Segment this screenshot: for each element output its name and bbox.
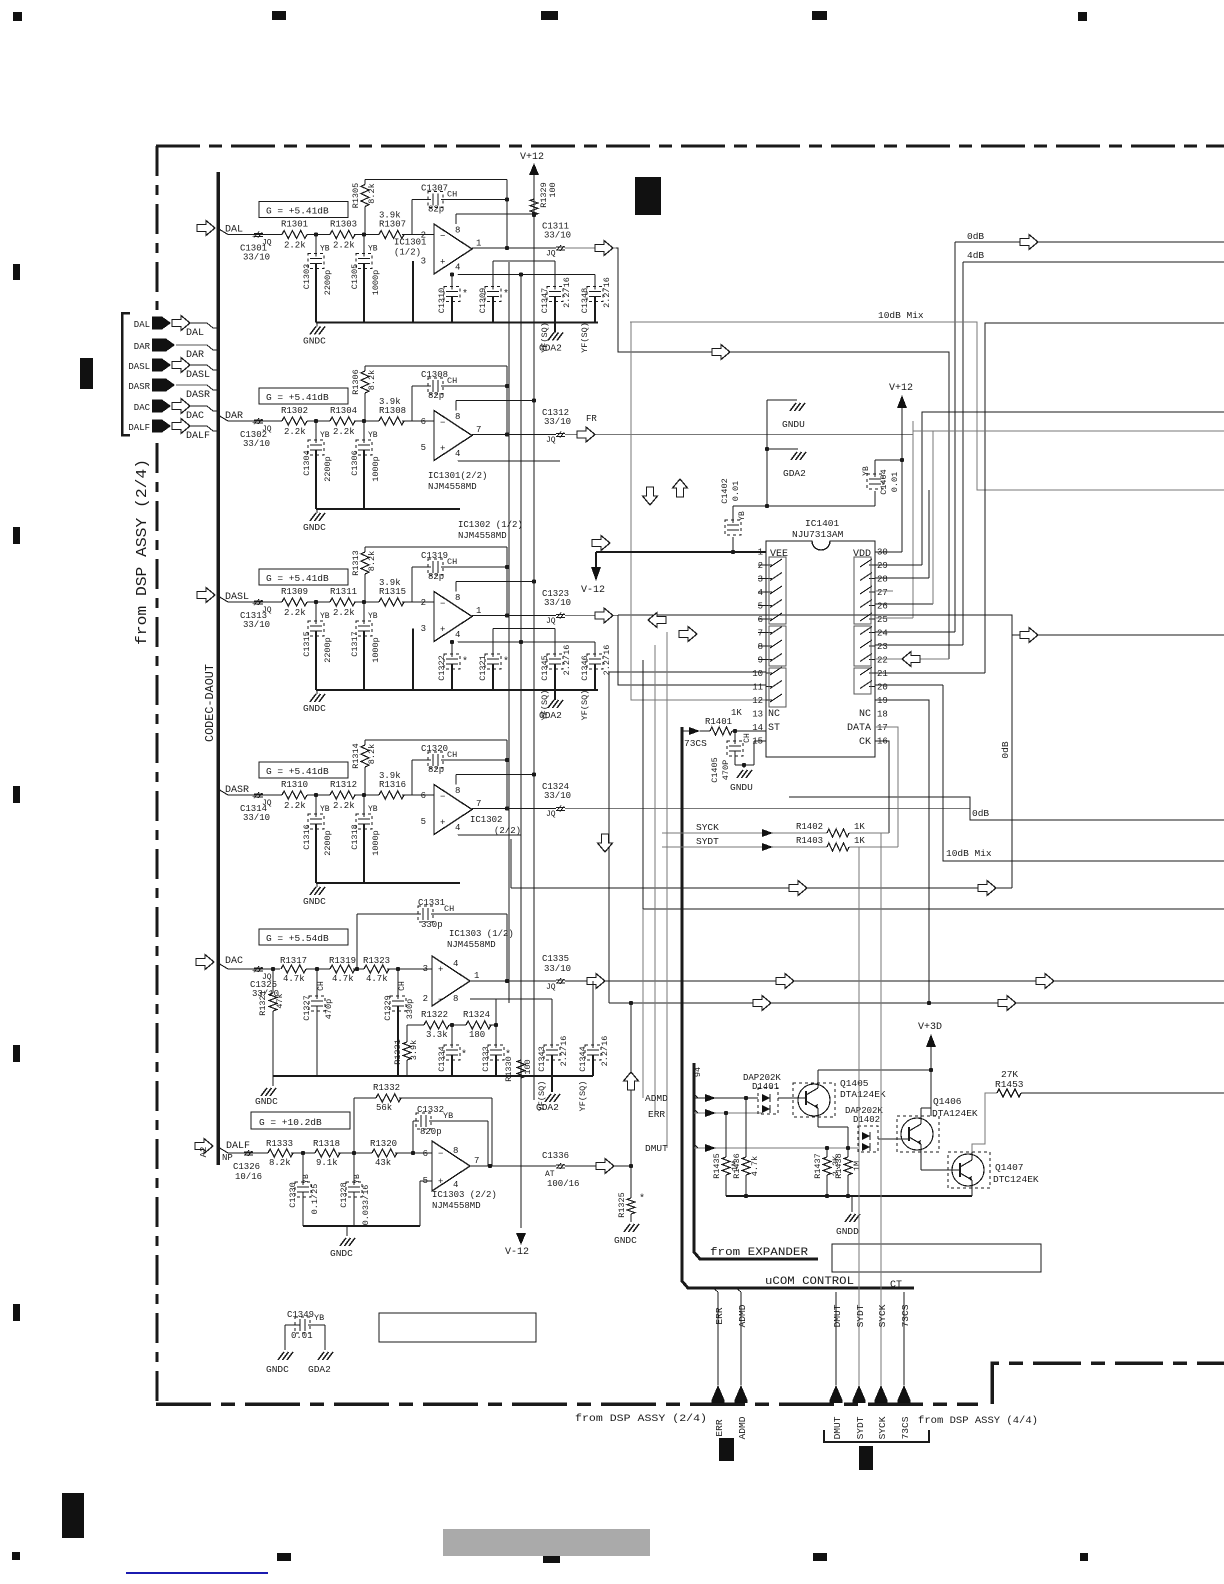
arrow output DAC [587,974,605,989]
wire column x631 [631,322,766,1166]
svg-text:0.01: 0.01 [890,472,900,492]
svg-text:4: 4 [758,588,763,598]
svg-text:22: 22 [877,656,888,666]
wire pin17 DATA [875,727,898,847]
svg-text:2: 2 [421,598,426,608]
svg-text:28: 28 [877,575,888,585]
wire input DAR [218,415,282,421]
frame top dashed [156,145,1224,148]
svg-text:R1317: R1317 [280,956,307,966]
svg-text:C1345: C1345 [540,655,550,681]
resistor R1321 47k [258,969,285,1076]
svg-text:ADMD: ADMD [737,1304,748,1327]
label ADMD upper [737,1304,748,1327]
arrow pair mid down [643,487,658,505]
svg-text:94: 94 [693,1067,703,1077]
svg-text:C1315: C1315 [302,631,312,657]
capacitor C1331 330p CH [357,898,507,981]
capacitor C1316 2200p [302,795,333,883]
svg-text:NJU7313AM: NJU7313AM [792,529,844,540]
svg-text:CH: CH [317,981,326,991]
svg-text:+: + [252,234,256,242]
svg-text:0dB: 0dB [1000,741,1011,758]
wire 0dB lower line [789,797,1224,820]
wire DMUT row [645,1143,858,1154]
svg-text:2200p: 2200p [323,456,333,482]
svg-text:R1402: R1402 [796,822,823,832]
svg-text:DASR: DASR [186,390,210,401]
svg-text:C1317: C1317 [350,631,360,657]
label C1323 33/10 [542,589,571,608]
gain box +5.41dB [259,762,348,778]
arrow 0dB [1020,235,1038,250]
svg-text:YB: YB [302,1174,311,1184]
wire VEE pin1 [596,550,766,554]
svg-text:C1336: C1336 [542,1151,569,1161]
svg-text:2.2/16: 2.2/16 [600,1036,610,1067]
svg-text:4.7k: 4.7k [283,974,305,984]
wire pin28 up [928,490,930,578]
svg-text:CH: CH [447,190,457,200]
ground GNDU [782,403,805,430]
wire Q1405 collector [818,1070,931,1083]
IC1401 pin numbers [752,548,888,747]
capacitor C1402 0.01 [720,478,747,552]
svg-text:R1314: R1314 [351,743,361,769]
svg-text:DALF: DALF [186,431,210,442]
svg-text:from DSP ASSY (2/4): from DSP ASSY (2/4) [575,1413,707,1425]
svg-text:1000p: 1000p [371,270,381,296]
label NC DATA CK pins 16-18 [847,709,871,748]
svg-text:R1324: R1324 [463,1010,490,1020]
svg-text:C1318: C1318 [350,824,360,850]
svg-text:C1335: C1335 [542,954,569,964]
svg-text:4: 4 [453,1180,458,1190]
resistor R1313 8.2k [351,547,377,602]
resistor R1435 1M [712,1113,740,1196]
svg-text:ST: ST [768,723,780,734]
ground GDA2 block5 [536,1076,560,1113]
svg-text:1K: 1K [854,836,865,846]
svg-text:7: 7 [476,799,481,809]
svg-text:18: 18 [877,710,888,720]
ground GDA2 [539,323,563,354]
svg-text:GNDD: GNDD [836,1226,859,1237]
wire op-amp V- pin [458,640,595,644]
capacitor C1332 820p YB [413,1105,488,1166]
wire C1402 top net [733,400,875,508]
svg-text:26: 26 [877,602,888,612]
svg-text:6: 6 [758,615,763,625]
rect box bottom right [832,1244,1041,1272]
wire [412,261,414,323]
capacitor C1405 470P CH [710,731,766,783]
svg-text:C1327: C1327 [302,995,312,1021]
wire column x643 [642,660,644,1098]
svg-text:+: + [440,625,445,635]
arrow near IC left [648,613,666,628]
bracket DMUT-73CS [824,1430,929,1442]
svg-text:8: 8 [455,226,460,236]
wire ADMD drop [736,1288,741,1385]
svg-text:G = +10.2dB: G = +10.2dB [259,1117,322,1128]
svg-text:2.2k: 2.2k [284,608,306,618]
label CODEC-DAOUT [204,664,217,742]
label 0dB rotated [1000,741,1011,758]
svg-text:DAR: DAR [186,350,204,361]
gain box +5.41dB [259,388,348,404]
svg-text:R1320: R1320 [370,1139,397,1149]
arrow near IC right [679,627,697,642]
svg-text:33/10: 33/10 [243,439,270,449]
svg-text:JQ: JQ [546,983,556,992]
svg-text:+: + [252,420,256,428]
wire ground bus [316,882,460,884]
resistor R1301 2.2k [281,220,308,251]
wire 73CS bus [682,727,914,1288]
label input DASL [225,592,249,603]
svg-text:C1331: C1331 [418,898,445,908]
svg-text:1000p: 1000p [371,637,381,663]
capacitor C1304 2200p [302,421,333,509]
svg-text:YB: YB [368,612,378,621]
label SYCK upper [877,1304,888,1327]
svg-text:CH: CH [447,557,457,567]
svg-text:C1349: C1349 [287,1310,314,1320]
arrow input A2 DALF [195,1139,213,1158]
svg-text:VDD: VDD [853,549,871,560]
svg-text:GDA2: GDA2 [536,1102,559,1113]
label 73CS lower [900,1416,911,1439]
wire y888 line [511,839,1012,888]
svg-text:2.2k: 2.2k [284,427,306,437]
ground GNDC [303,690,326,714]
svg-text:DTA124EK: DTA124EK [840,1089,886,1100]
svg-text:R1310: R1310 [281,780,308,790]
svg-text:C1404: C1404 [879,469,889,495]
wire output [472,434,913,436]
label C1336 100/16 [542,1151,579,1189]
svg-text:DASL: DASL [186,370,210,381]
svg-text:R1312: R1312 [330,780,357,790]
svg-text:ERR: ERR [714,1307,725,1324]
svg-text:73CS: 73CS [684,738,707,749]
svg-text:−: − [440,232,445,242]
connector DASR [128,379,218,402]
svg-text:G = +5.54dB: G = +5.54dB [266,933,329,944]
svg-text:ADMD: ADMD [737,1416,748,1439]
svg-text:2.2/16: 2.2/16 [602,277,612,308]
svg-text:GDA2: GDA2 [308,1364,331,1375]
svg-text:R1304: R1304 [330,406,357,416]
svg-text:C1346: C1346 [580,655,590,681]
wire Q1406 emitter to Q1407 [921,1152,948,1170]
svg-text:1K: 1K [731,708,742,718]
capacitor C1348 2.2/16 [580,275,612,353]
resistor R1316 3.9k [379,771,434,799]
svg-text:R1325: R1325 [617,1192,627,1218]
resistor R1303 2.2k [330,220,357,251]
svg-text:DMUT: DMUT [832,1304,843,1327]
jumper JQ C1302 [252,418,272,434]
svg-text:C1330: C1330 [288,1182,298,1208]
wire pin26 stub [875,431,933,604]
wire 94 bus [693,1063,818,1259]
svg-text:*: * [461,1049,467,1061]
label SYDT lower [855,1416,866,1439]
capacitor C1310 * [437,272,468,322]
diode D1401 DAP202K [743,1073,781,1114]
svg-text:DASR: DASR [128,382,150,392]
svg-text:+: + [252,601,256,609]
frame bottom-right step [992,1363,1224,1404]
svg-text:100/16: 100/16 [547,1179,579,1189]
svg-text:CH: CH [398,981,407,991]
arrow output [595,608,613,623]
wire pin19 [875,700,929,1003]
op-amp IC1303 (1/2) [423,956,480,1006]
svg-text:V+12: V+12 [889,383,913,394]
svg-text:YB: YB [443,1111,453,1121]
op-amp [421,592,482,642]
svg-text:11: 11 [752,683,763,693]
svg-text:2.2k: 2.2k [333,241,355,251]
arrow pin22 left [902,652,920,667]
svg-text:YB: YB [320,245,330,254]
svg-text:27: 27 [877,588,888,598]
svg-text:+: + [252,794,256,802]
svg-text:4: 4 [453,959,458,969]
IC1401 internal switches [766,559,875,702]
label C1313 33/10 [240,611,270,630]
svg-text:33/10: 33/10 [544,964,571,974]
label DMUT lower [832,1416,843,1439]
wire 4dB line [963,250,1224,645]
wire op-amp 5 input [420,1181,432,1226]
svg-text:R1453: R1453 [995,1079,1024,1090]
gain box G = +10.2dB [251,1112,350,1129]
svg-text:SYDT: SYDT [855,1416,866,1439]
svg-text:82p: 82p [428,391,444,401]
svg-text:GDA2: GDA2 [783,468,806,479]
svg-text:R1316: R1316 [379,780,406,790]
svg-text:2.2/16: 2.2/16 [562,277,572,308]
svg-text:4: 4 [455,823,460,833]
resistor R1329 100 [530,182,558,217]
ground GDA2 [783,452,806,479]
label C1335 33/10 [542,954,571,974]
capacitor C1334 * [437,1023,467,1076]
svg-text:2.2k: 2.2k [333,608,355,618]
connector DAC [134,399,218,423]
svg-text:YB: YB [314,1313,324,1323]
svg-text:2.2k: 2.2k [284,801,306,811]
wire [307,793,330,797]
ground GNDC C1349 [266,1352,293,1375]
svg-text:+: + [438,965,443,975]
svg-text:10dB Mix: 10dB Mix [946,848,992,859]
svg-text:29: 29 [877,561,888,571]
svg-text:GNDC: GNDC [255,1096,278,1107]
svg-text:R1322: R1322 [421,1010,448,1020]
svg-text:GNDC: GNDC [303,522,326,533]
wire column x618 pin11 [618,615,766,685]
svg-text:GNDC: GNDC [614,1235,637,1246]
svg-text:+: + [440,444,445,454]
svg-text:SYDT: SYDT [696,836,719,847]
svg-text:2.2k: 2.2k [333,801,355,811]
svg-text:C1310: C1310 [437,288,447,314]
svg-text:V+12: V+12 [520,152,544,163]
svg-text:V-12: V-12 [505,1247,529,1258]
wire op-amp V+ pin [456,398,536,410]
wire 10dB Mix line [630,310,1224,490]
resistor R1318 9.1k [313,1139,372,1168]
svg-text:C1328: C1328 [339,1182,349,1208]
svg-text:IC1303 (1/2): IC1303 (1/2) [449,929,514,939]
svg-text:8.2k: 8.2k [367,744,377,764]
svg-text:G = +5.41dB: G = +5.41dB [266,573,329,584]
svg-text:1: 1 [476,606,481,616]
capacitor C1330 0.1/25 [288,1153,320,1226]
connector ERR [712,1385,725,1403]
svg-text:JQ: JQ [546,810,556,819]
power V+12 rail [520,152,544,1100]
svg-text:10/16: 10/16 [235,1172,262,1182]
svg-text:YB: YB [368,805,378,814]
svg-text:24: 24 [877,629,888,639]
svg-text:JQ: JQ [546,436,556,445]
svg-text:Q1406: Q1406 [933,1096,962,1107]
wire block3 output run [618,615,1224,635]
wire input DAL [218,229,282,235]
ground GNDC block6 [330,1238,355,1259]
capacitor C1333 * [481,1023,511,1076]
svg-text:−: − [438,995,443,1005]
frame left dashed [156,146,159,1404]
resistor R1401 1K [700,708,766,735]
svg-text:R1333: R1333 [266,1139,293,1149]
svg-text:D1401: D1401 [752,1082,779,1092]
connector SYDT [853,1385,866,1403]
power V-12 rail [505,274,529,1258]
arrow block3 run [1020,628,1038,643]
svg-text:YB: YB [353,1174,362,1184]
label C1314 33/10 [240,804,270,823]
wire feedback [365,180,509,251]
label VEE VDD [770,549,871,560]
wire input DASL [218,596,282,602]
svg-text:CH: CH [447,376,457,386]
svg-text:YB: YB [738,511,747,521]
wire pin21 [875,672,985,674]
svg-text:R1302: R1302 [281,406,308,416]
resistor R1314 8.2k [351,740,377,795]
resistor R1317 4.7k [271,956,319,984]
resistor R1436 4.7k [732,1098,760,1196]
svg-text:R1303: R1303 [330,220,357,230]
svg-text:−: − [438,1149,443,1159]
connector DMUT [830,1385,843,1403]
svg-text:R1311: R1311 [330,587,357,597]
svg-text:*: * [462,656,468,668]
resistor R1322 3.3k [407,1010,449,1040]
svg-text:G = +5.41dB: G = +5.41dB [266,206,329,217]
svg-text:DAR: DAR [134,342,151,352]
svg-text:C1319: C1319 [421,551,448,561]
svg-text:NJM4558MD: NJM4558MD [458,531,507,541]
resistor R1324 180 [449,999,496,1040]
jumper JQ C1314 [252,792,272,808]
arrow block1 run [712,345,730,360]
label input DAL [225,225,243,236]
svg-text:(2/2): (2/2) [494,826,521,836]
wire op-amp output [470,979,1224,983]
connector DAR [134,339,218,362]
label SYDT upper [855,1304,866,1327]
wire [354,232,379,236]
svg-text:R1315: R1315 [379,587,406,597]
svg-text:2.2k: 2.2k [284,241,306,251]
wire pin24 [875,631,955,633]
svg-text:*: * [639,1193,645,1205]
wire block1 output run [616,248,949,659]
svg-text:0dB: 0dB [972,808,989,819]
connector bracket [122,313,130,435]
svg-text:8.2k: 8.2k [367,551,377,571]
svg-text:4: 4 [455,630,460,640]
resistor R1402 1K [796,822,865,837]
wire ERR drop [713,1288,718,1385]
resistor R1306 8.2k [351,366,377,421]
svg-text:*: * [462,289,468,301]
svg-text:DAR: DAR [225,411,243,422]
label FR [586,414,597,424]
resistor R1330 100 [504,1056,533,1082]
svg-text:C1304: C1304 [302,450,312,476]
label ERR lower [714,1419,725,1436]
svg-text:DATA: DATA [847,723,871,734]
capacitor C1307 82p [412,184,507,235]
gain box +5.41dB [259,569,348,585]
wire [307,232,330,236]
wire ERR row [648,1109,762,1120]
ground GNDC [303,509,326,533]
label input DAR [225,411,243,422]
svg-text:5: 5 [421,443,426,453]
wire ADMD row [645,1093,758,1104]
svg-text:C1321: C1321 [478,655,488,681]
svg-text:2: 2 [423,994,428,1004]
resistor R1312 2.2k [330,780,357,811]
svg-text:8: 8 [455,593,460,603]
label C1325 33/10 [250,980,279,999]
diode D1402 DAP202K [845,1106,883,1152]
resistor R1438 1M [834,1148,862,1196]
resistor R1305 8.2k [351,180,377,235]
svg-text:VEE: VEE [770,549,788,560]
svg-text:A2: A2 [199,1147,209,1158]
transistor Q1405 DTA124EK [778,1078,886,1117]
svg-text:100: 100 [523,1059,533,1074]
gain box +5.41dB [259,202,348,218]
wire Q1405 emitter [818,1117,848,1148]
svg-text:GDA2: GDA2 [539,710,562,721]
arrow line B b [998,996,1016,1011]
connector DALF [128,419,218,443]
svg-text:D1402: D1402 [853,1115,880,1125]
resistor R1307 3.9k [379,211,434,239]
